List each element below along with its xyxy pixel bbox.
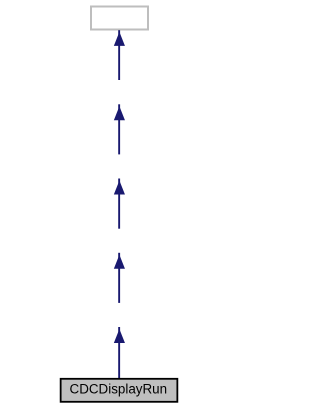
wire: edge 3 stem bbox=[118, 179, 120, 229]
edge 2 arrowhead bbox=[114, 106, 125, 120]
edge 3 arrowhead bbox=[114, 181, 125, 195]
edge 4 arrowhead bbox=[114, 255, 125, 269]
edge 5 arrowhead bbox=[114, 329, 125, 343]
node: CDCDisplayRun bbox=[61, 379, 178, 402]
node: truncated base class (empty box) bbox=[91, 7, 148, 30]
wire: edge 1 stem bbox=[118, 30, 120, 80]
svg-text:CDCDisplayRun: CDCDisplayRun bbox=[70, 382, 167, 397]
edge 1 arrowhead bbox=[114, 32, 125, 46]
wire: edge 2 stem bbox=[118, 104, 120, 154]
wire: edge 5 stem bbox=[118, 327, 120, 378]
wire: edge 4 stem bbox=[118, 253, 120, 303]
